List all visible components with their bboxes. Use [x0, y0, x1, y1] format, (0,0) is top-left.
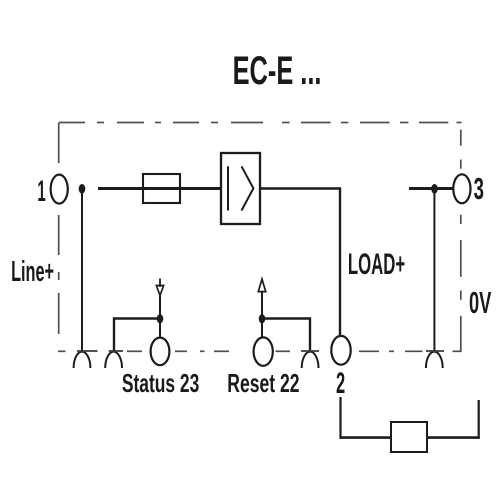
dash-dot bottom segment 9 — [405, 350, 423, 352]
dash-dot border right dot 2 — [460, 160, 462, 169]
reset node dot — [259, 314, 266, 323]
wire: main horizontal Line+ to switch — [98, 187, 221, 190]
dash-dot bottom segment 1 — [58, 350, 66, 352]
svg-text:3: 3 — [474, 172, 484, 206]
reset branch wire — [262, 319, 310, 352]
switch chevron — [242, 166, 254, 210]
dash-dot border right seg 1 — [460, 130, 462, 146]
svg-text:1: 1 — [37, 176, 45, 209]
svg-text:0V: 0V — [469, 286, 492, 320]
svg-text:Reset 22: Reset 22 — [227, 369, 299, 398]
reset arrowhead up (open) — [258, 279, 265, 292]
load wire bottom left — [340, 436, 392, 439]
terminal arc bar (status left) — [109, 350, 123, 352]
svg-text:Line+: Line+ — [11, 255, 54, 287]
dash-dot border right seg 4 — [460, 240, 462, 277]
dash-dot border left seg 2 — [58, 215, 60, 255]
switch bar — [227, 166, 229, 210]
dash-dot border left seg 4 — [58, 293, 60, 334]
status branch wire — [114, 319, 160, 352]
terminal arc bar (0V) — [426, 350, 444, 352]
dash-dot border right dot 5 — [460, 291, 462, 300]
dash-dot bottom segment 7 — [359, 350, 379, 352]
dash-dot border top — [59, 122, 85, 124]
node junction dot right — [431, 184, 438, 194]
svg-text:2: 2 — [336, 367, 345, 400]
wire: right vertical to 0V terminal arc — [433, 190, 435, 351]
dash-dot bottom segment 3 — [175, 350, 187, 352]
terminal arc bar (reset right) — [301, 350, 319, 352]
electronic switch block U1 — [221, 153, 260, 224]
terminal arc at reset right — [302, 352, 319, 368]
dash-dot bottom segment 6 — [276, 350, 291, 352]
dash-dot border right seg 6 — [460, 316, 462, 351]
wire: left vertical from node to terminal arc — [81, 189, 83, 351]
dash-dot border right dot 3 — [460, 215, 462, 224]
dash-dot bottom dot 8 — [389, 350, 394, 352]
terminal circle Status 23 — [151, 338, 170, 366]
svg-text:Status 23: Status 23 — [122, 369, 199, 398]
node junction dot left — [79, 184, 86, 194]
load wire bottom right — [427, 436, 480, 439]
terminal 2 circle — [331, 336, 350, 365]
svg-text:EC-E ...: EC-E ... — [233, 50, 322, 94]
wire: right horizontal to terminal 3 — [409, 187, 453, 190]
terminal 3 circle — [453, 174, 470, 203]
terminal circle Reset 22 — [254, 337, 273, 365]
dash-dot border left seg 1 — [58, 123, 60, 164]
load resistor — [391, 422, 427, 452]
terminal 1 circle — [51, 175, 68, 204]
dash-dot bottom dot 4 — [200, 350, 205, 352]
terminal arc bar (far left) — [77, 350, 98, 352]
terminal arc 0V right — [426, 352, 443, 368]
reset wire arrow to circle — [261, 292, 263, 338]
dash-dot border left dot 3 — [58, 272, 60, 280]
fuse F1 — [143, 174, 180, 203]
terminal arc at status left — [105, 352, 122, 368]
load wire down from terminal 2 — [339, 397, 341, 439]
dash-dot bottom segment 10 — [453, 350, 462, 352]
wire: switch to LOAD+ corner — [260, 189, 340, 337]
status wire arrow to circle — [159, 296, 161, 339]
status arrowhead down (open) — [156, 286, 163, 296]
terminal arc far left — [74, 352, 91, 368]
load wire up right — [478, 400, 480, 439]
dash-dot bottom segment 5 — [214, 350, 229, 352]
svg-text:LOAD+: LOAD+ — [348, 248, 405, 281]
dash-dot bottom segment 2 — [127, 350, 142, 352]
status arrow stub — [159, 279, 161, 288]
status node dot — [157, 314, 164, 323]
